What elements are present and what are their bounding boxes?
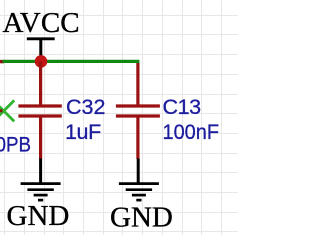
svg-text:AVCC: AVCC [3,7,80,39]
ground symbol GND2 [119,159,159,201]
capacitor C32 [18,62,61,160]
pin stub left of wire [0,60,4,63]
ground symbol GND1 [21,159,61,201]
svg-text:1uF: 1uF [65,120,101,144]
wire AVCC net vertical drop to C13 [136,62,139,106]
svg-text:0PB: 0PB [0,133,31,157]
junction dot [35,55,48,68]
power symbol AVCC [27,38,55,56]
svg-text:C13: C13 [163,95,202,119]
svg-text:GND: GND [110,202,173,234]
wire AVCC net horizontal [3,60,140,63]
svg-text:C32: C32 [66,95,105,119]
pin tip at X [0,109,3,112]
capacitor C13 [116,106,160,159]
no-connect X [0,100,14,121]
svg-text:GND: GND [7,200,70,232]
svg-text:100nF: 100nF [163,120,220,144]
